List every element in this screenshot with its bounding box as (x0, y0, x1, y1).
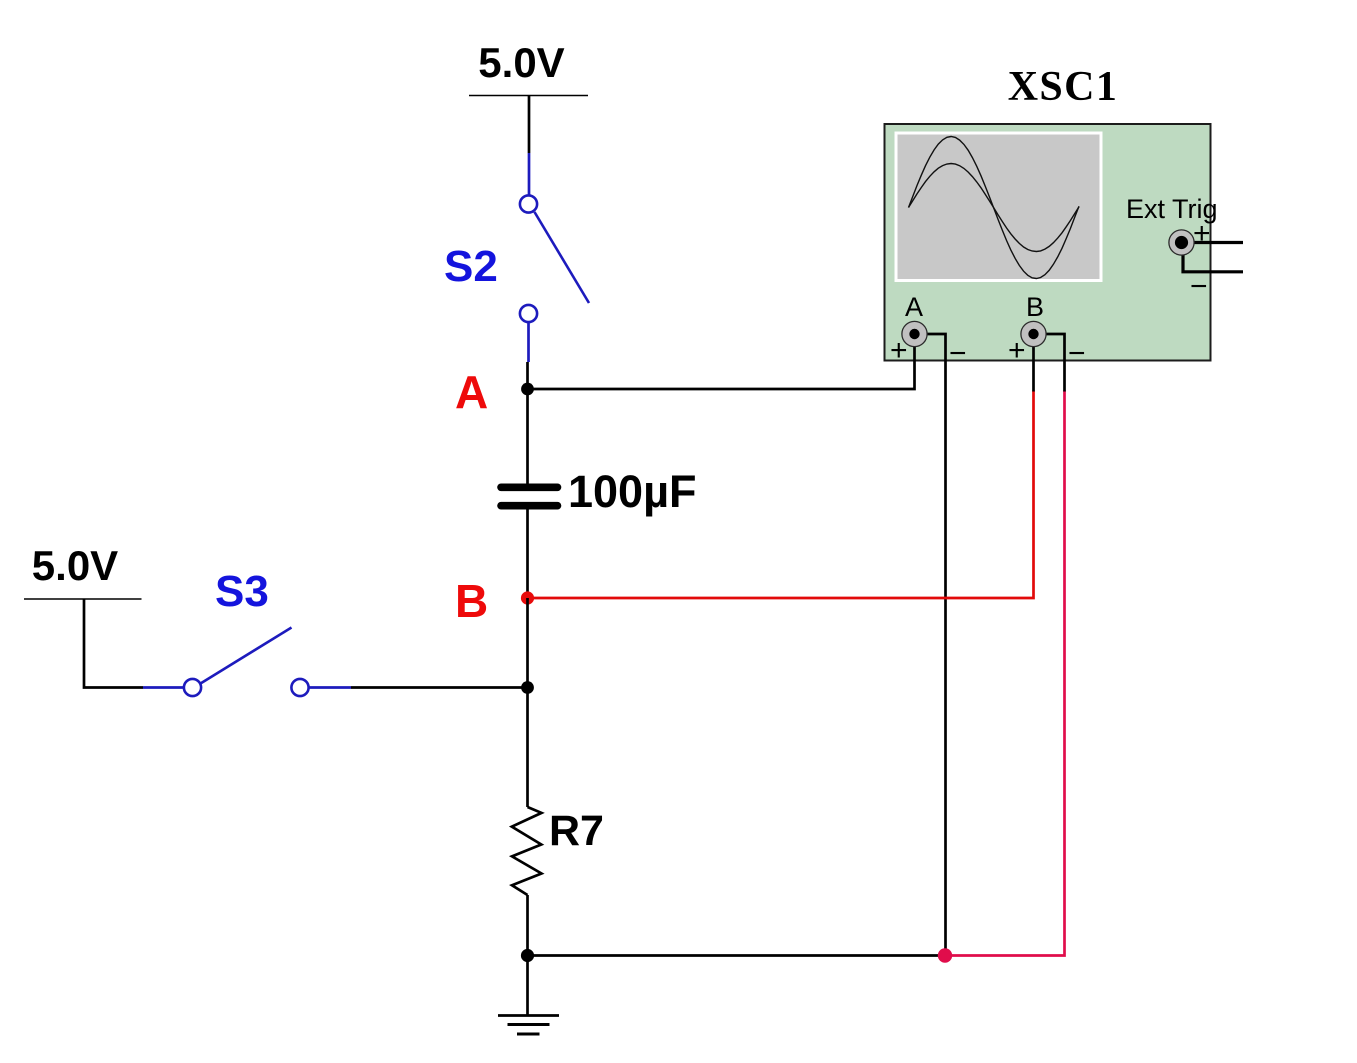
oscilloscope screen (898, 135, 1100, 280)
wire: scope channel B- black segment at terminal (1034, 334, 1065, 392)
DC supply rail symbol (top) (469, 95, 588, 97)
wire: capacitor to node B (526, 508, 529, 598)
node B junction dot (521, 591, 534, 604)
wire: scope channel B+ black segment at terminal (1032, 334, 1035, 392)
svg-text:B: B (455, 575, 488, 627)
wire: top supply to switch S2 (black part) (528, 96, 531, 154)
wire: top supply to switch S2 (blue part) (528, 153, 531, 195)
wire: ground rail to scope channel B- (crimson) (945, 391, 1065, 956)
wire: R7 to ground node (526, 895, 529, 956)
wire: S2 to node A (black part) (526, 362, 529, 389)
wire: node B down to middle node (526, 598, 529, 688)
ground symbol (498, 1016, 559, 1035)
ground node junction dot (521, 949, 534, 962)
wire: S3 to middle node (blue part) (309, 686, 351, 689)
svg-text:5.0V: 5.0V (32, 542, 118, 589)
wire: Ext Trig + stub (1182, 241, 1244, 244)
switch S3 (184, 628, 309, 697)
middle node junction dot (521, 681, 534, 694)
svg-text:−: − (1068, 337, 1086, 370)
svg-text:+: + (1193, 217, 1211, 250)
waveform trace channel B (small sine) (909, 164, 1080, 252)
junction dot at scope B- return (crimson) (938, 948, 952, 962)
svg-text:5.0V: 5.0V (478, 39, 564, 86)
wire: Ext Trig - stub (1183, 243, 1243, 272)
svg-text:100µF: 100µF (568, 466, 697, 517)
oscilloscope XSC1 body (885, 124, 1211, 361)
wire: S2 to node A (blue part) (527, 323, 530, 363)
svg-text:S2: S2 (444, 242, 498, 291)
wire: ground node to ground symbol (526, 956, 529, 1016)
waveform trace channel A (large sine) (909, 137, 1080, 279)
svg-text:B: B (1026, 292, 1044, 322)
svg-text:A: A (455, 366, 488, 418)
svg-text:S3: S3 (215, 567, 269, 616)
resistor R7 (512, 807, 542, 895)
Ext Trig terminal (1169, 230, 1194, 255)
switch S2 (520, 195, 589, 322)
oscilloscope screen bezel (895, 132, 1103, 283)
wire: node A to capacitor (526, 389, 529, 485)
DC supply rail symbol (left) (24, 598, 142, 600)
wire: ground node to scope return junction (528, 954, 946, 957)
scope terminal B (1021, 321, 1046, 346)
svg-text:R7: R7 (549, 807, 604, 855)
capacitor C plates (501, 487, 558, 505)
node A junction dot (521, 383, 534, 396)
scope terminal A (902, 321, 927, 346)
svg-text:−: − (949, 337, 967, 370)
wire: left supply to switch S3 (black part) (84, 599, 143, 688)
wire: scope channel A- down to ground rail (915, 334, 946, 956)
wire: node A to scope channel A+ (528, 334, 915, 389)
wire: node B to scope channel B+ (red) (528, 391, 1034, 599)
svg-text:A: A (905, 292, 923, 322)
wire: middle node to resistor R7 (526, 688, 529, 808)
wire: S3 to middle node (black part) (351, 686, 528, 689)
svg-text:XSC1: XSC1 (1008, 64, 1119, 110)
svg-text:−: − (1190, 270, 1208, 303)
wire: left supply to switch S3 (blue part) (143, 686, 184, 689)
